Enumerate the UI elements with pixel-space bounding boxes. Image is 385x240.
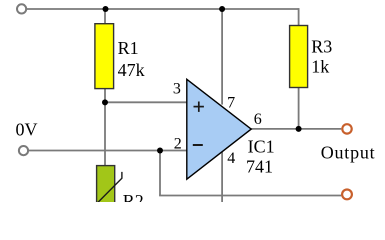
wire R1 top lead bbox=[104, 9, 106, 24]
wire R3 bottom lead bbox=[298, 88, 300, 129]
node junction R1-R2 divider to pin 3 bbox=[102, 99, 108, 105]
wire from 0V junction down to bottom rail bbox=[159, 150, 161, 196]
wire op-amp output to terminal bbox=[251, 128, 342, 130]
svg-text:741: 741 bbox=[246, 156, 273, 176]
terminal bottom-right bbox=[342, 190, 352, 200]
svg-text:2: 2 bbox=[174, 135, 182, 152]
resistor R1 bbox=[95, 24, 114, 89]
resistor R3 bbox=[290, 26, 308, 88]
wire bottom rail to output terminal bbox=[159, 195, 341, 197]
wire 0V input to op-amp pin 2 bbox=[29, 150, 187, 152]
node junction output / R3 bbox=[296, 126, 302, 132]
thermistor R2 bbox=[97, 166, 122, 206]
svg-text:R3: R3 bbox=[311, 36, 332, 56]
svg-text:R2: R2 bbox=[123, 191, 144, 202]
node junction top rail / R1 bbox=[103, 6, 109, 12]
wire R3 top lead bbox=[298, 8, 300, 25]
svg-text:1k: 1k bbox=[311, 57, 329, 77]
terminal Output bbox=[342, 124, 351, 133]
wire R1 bottom lead down to R2 bbox=[104, 89, 106, 166]
node junction top rail / pin7 lead bbox=[219, 6, 225, 12]
op-amp plus input mark bbox=[194, 102, 204, 112]
node junction 0V to pin 2 bbox=[157, 148, 163, 154]
wire pin 7 supply lead bbox=[221, 9, 223, 105]
svg-text:0V: 0V bbox=[16, 119, 38, 139]
svg-text:47k: 47k bbox=[118, 60, 145, 80]
svg-text:R1: R1 bbox=[118, 38, 139, 58]
wire pin 4 supply lead bbox=[221, 152, 223, 202]
svg-text:3: 3 bbox=[173, 81, 181, 98]
svg-text:6: 6 bbox=[254, 111, 262, 128]
svg-text:7: 7 bbox=[227, 94, 235, 111]
svg-text:4: 4 bbox=[227, 150, 235, 167]
op-amp IC1 bbox=[187, 79, 251, 179]
svg-text:Output: Output bbox=[321, 143, 376, 163]
terminal 0V input bbox=[19, 146, 28, 155]
wire top supply rail bbox=[27, 8, 299, 10]
wire to op-amp pin 3 bbox=[105, 101, 187, 103]
op-amp minus input mark bbox=[193, 144, 203, 146]
terminal top-left supply bbox=[17, 4, 26, 13]
svg-text:IC1: IC1 bbox=[248, 137, 275, 157]
